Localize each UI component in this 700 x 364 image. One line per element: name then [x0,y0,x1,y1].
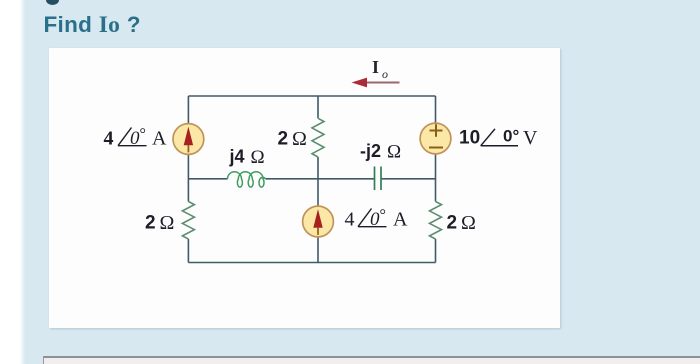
svg-text:A: A [393,209,408,231]
svg-text:2: 2 [145,213,156,234]
svg-text:o: o [382,67,388,81]
svg-text:°: ° [380,207,386,224]
svg-text:Ω: Ω [160,212,175,234]
svg-text:Ω: Ω [292,128,307,150]
svg-text:Ω: Ω [461,212,476,234]
svg-text:4: 4 [345,209,355,231]
svg-text:V: V [523,127,538,149]
svg-text:10: 10 [459,128,480,149]
svg-text:4: 4 [104,128,114,150]
svg-text:I: I [372,57,379,77]
svg-text:2: 2 [447,213,458,234]
svg-text:A: A [152,128,167,150]
svg-text:Ω: Ω [387,142,401,163]
svg-text:°: ° [140,126,146,143]
svg-text:j4: j4 [229,147,245,167]
svg-text:Ω: Ω [251,147,265,168]
svg-text:2: 2 [278,129,289,150]
svg-text:0°: 0° [503,127,519,146]
svg-text:-j2: -j2 [360,141,381,161]
